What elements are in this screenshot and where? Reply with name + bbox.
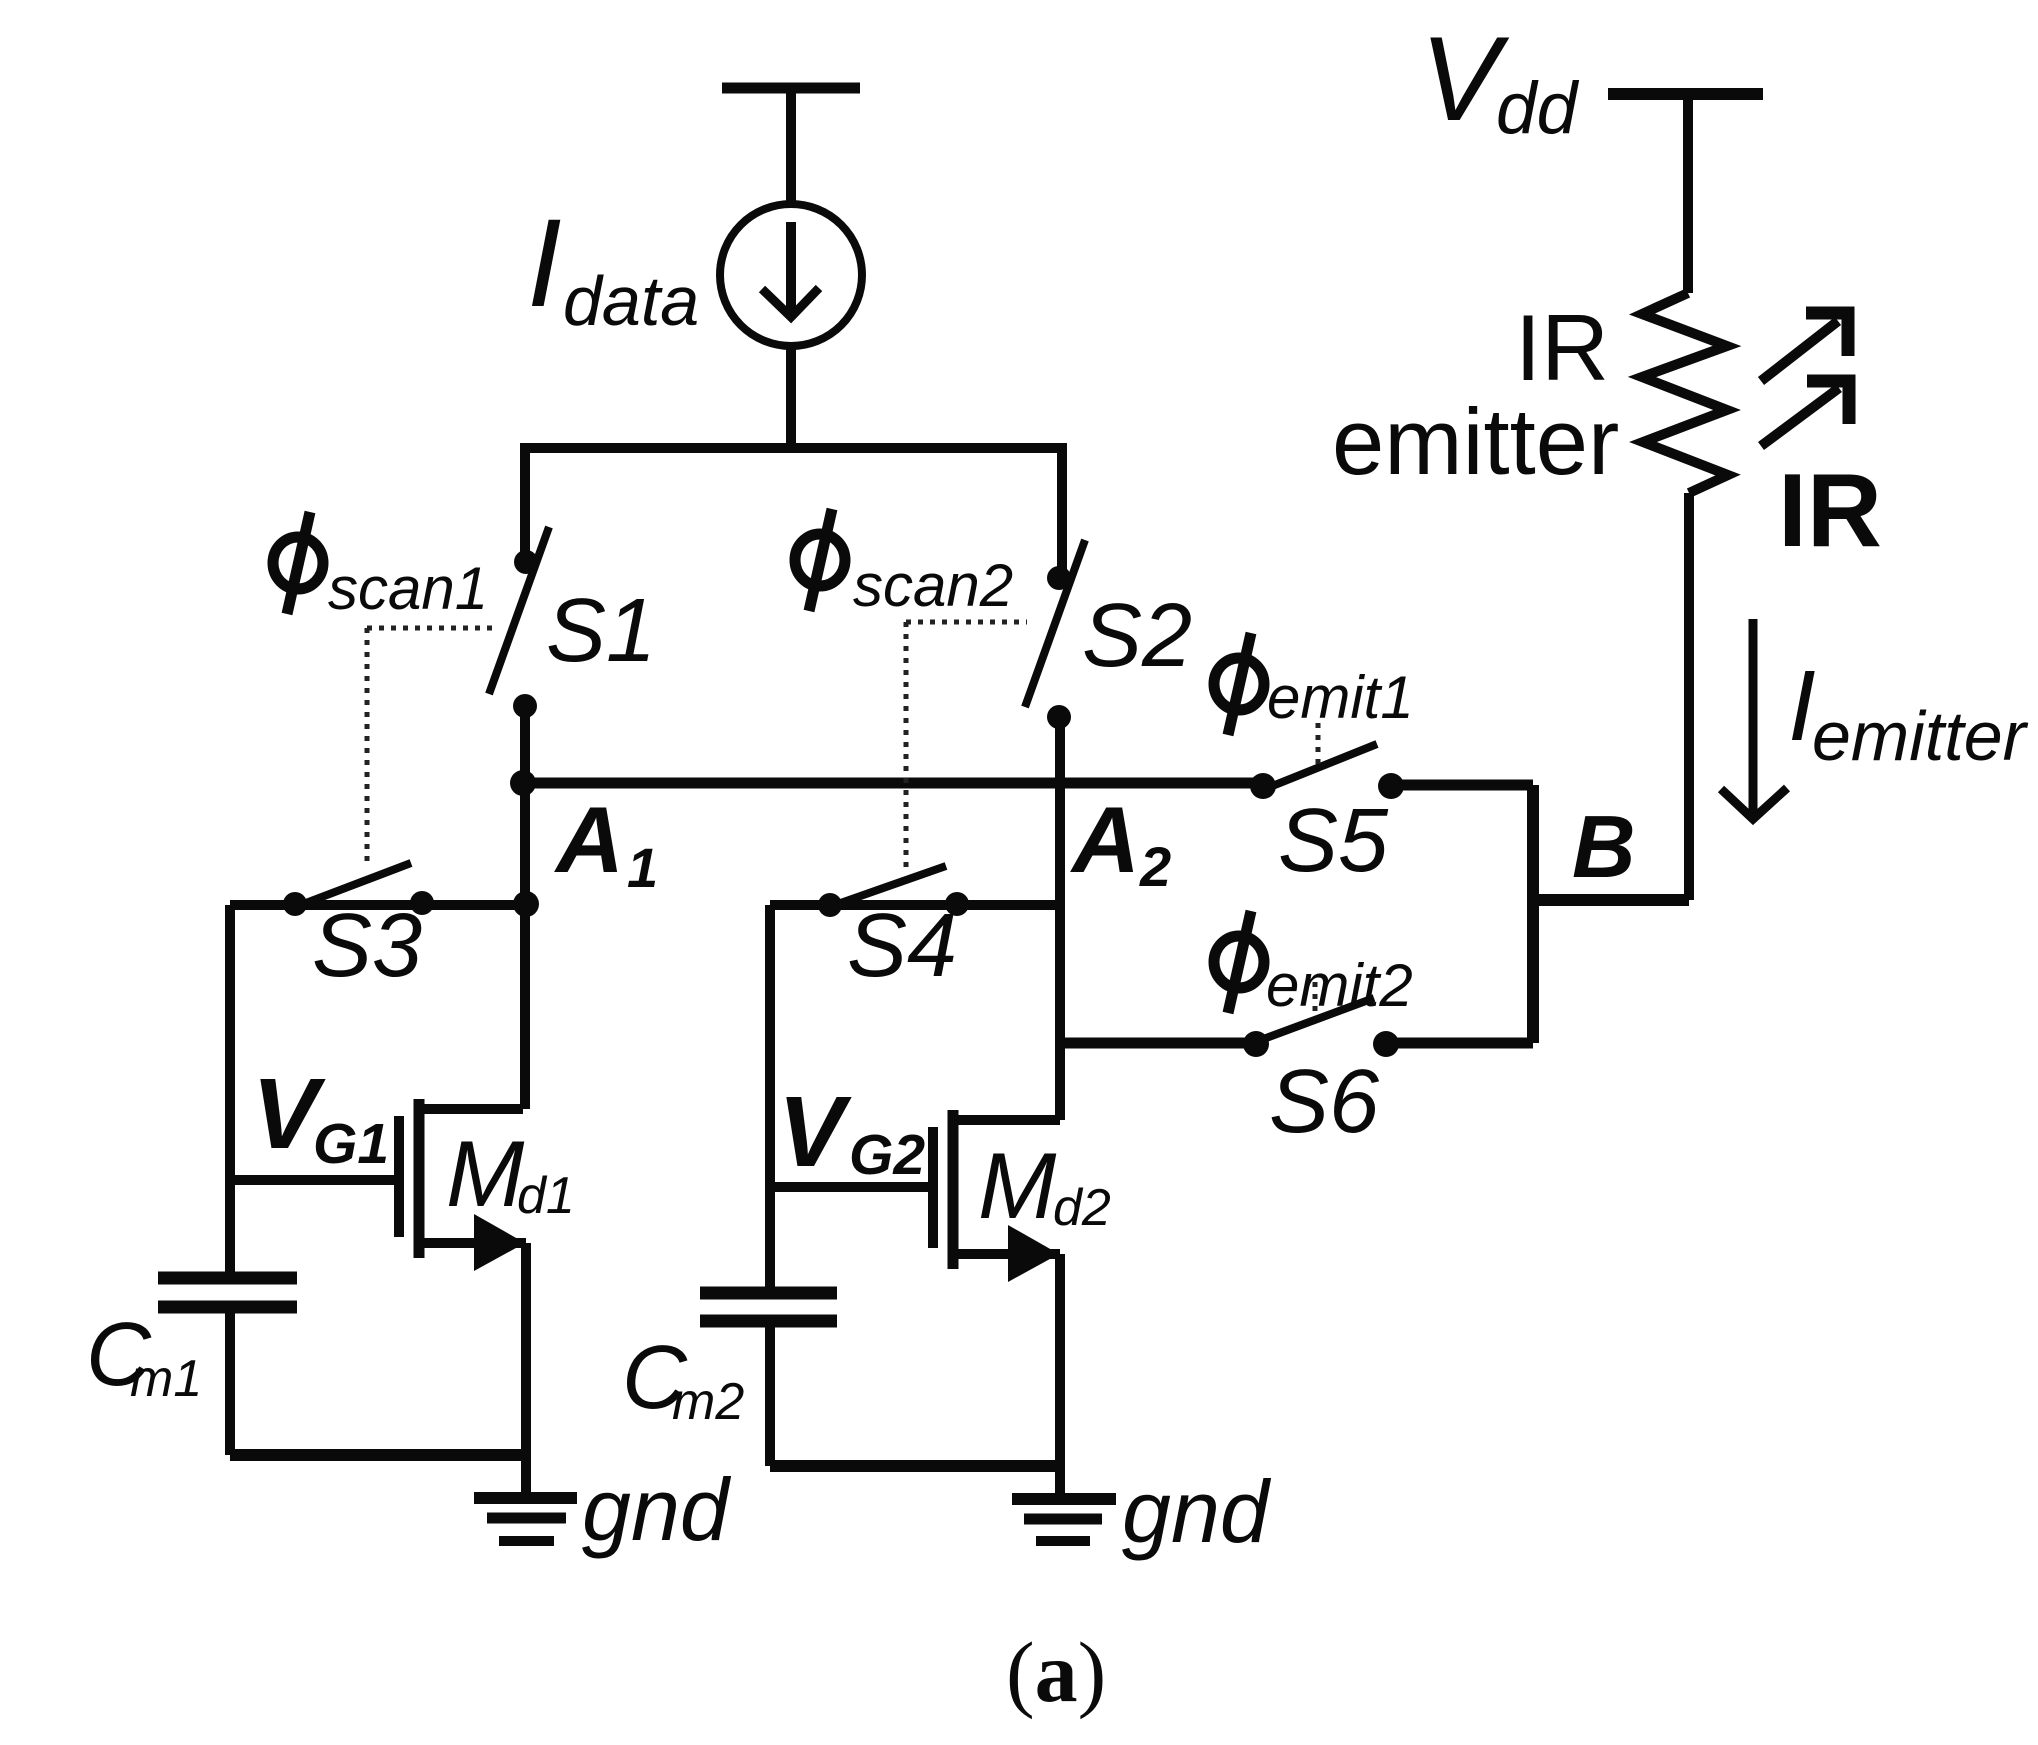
svg-text:(a): (a) xyxy=(1006,1624,1106,1720)
svg-text:G1: G1 xyxy=(313,1112,389,1176)
svg-text:dd: dd xyxy=(1496,68,1580,149)
svg-text:1: 1 xyxy=(627,836,658,899)
svg-text:S6: S6 xyxy=(1269,1052,1380,1152)
svg-text:emitter: emitter xyxy=(1332,389,1619,494)
svg-text:S5: S5 xyxy=(1278,791,1389,891)
svg-text:A: A xyxy=(554,787,624,892)
svg-text:I: I xyxy=(527,194,562,333)
svg-text:emit1: emit1 xyxy=(1267,664,1414,731)
svg-text:M: M xyxy=(978,1133,1057,1238)
svg-text:emit2: emit2 xyxy=(1266,952,1413,1019)
svg-text:gnd: gnd xyxy=(582,1460,732,1559)
svg-text:V: V xyxy=(778,1076,852,1188)
svg-text:m2: m2 xyxy=(672,1373,744,1431)
svg-text:B: B xyxy=(1572,797,1636,896)
svg-text:scan2: scan2 xyxy=(853,552,1013,619)
svg-text:S4: S4 xyxy=(847,896,957,996)
svg-text:S2: S2 xyxy=(1082,586,1192,686)
svg-text:d2: d2 xyxy=(1053,1179,1111,1237)
svg-text:emitter: emitter xyxy=(1812,697,2029,775)
svg-text:IR: IR xyxy=(1778,453,1882,569)
svg-text:2: 2 xyxy=(1139,835,1171,898)
svg-text:A: A xyxy=(1070,787,1140,892)
svg-text:S1: S1 xyxy=(546,581,656,681)
svg-text:M: M xyxy=(446,1121,525,1226)
svg-text:G2: G2 xyxy=(849,1123,925,1187)
svg-text:gnd: gnd xyxy=(1122,1462,1272,1561)
svg-text:d1: d1 xyxy=(517,1167,575,1225)
svg-text:data: data xyxy=(563,262,699,340)
svg-text:IR: IR xyxy=(1515,295,1609,400)
svg-text:S3: S3 xyxy=(312,896,422,996)
svg-text:m1: m1 xyxy=(130,1350,202,1408)
svg-text:scan1: scan1 xyxy=(328,555,488,622)
